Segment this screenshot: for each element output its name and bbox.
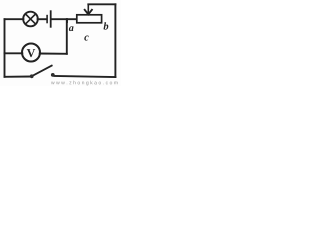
watermark text <box>51 82 55 85</box>
label a <box>69 26 74 31</box>
label c <box>84 36 88 41</box>
switch S blade <box>33 66 52 76</box>
switch S left pivot dot <box>30 74 34 78</box>
voltmeter V letter <box>27 49 35 57</box>
rheostat slider arrow <box>85 4 92 14</box>
battery cell <box>47 11 51 27</box>
wire left vertical <box>4 19 6 77</box>
rheostat R body <box>77 15 102 23</box>
lamp L1 <box>23 12 38 27</box>
wire bottom-left horizontal <box>5 76 31 78</box>
junction tick node <box>66 19 68 22</box>
switch S right contact dot <box>51 73 55 77</box>
wire voltmeter branch horizontal <box>5 52 23 54</box>
wire voltmeter riser vertical <box>66 19 68 54</box>
voltmeter U1 circle <box>22 44 40 62</box>
wire battery to rheostat terminal a <box>52 18 77 20</box>
wire bottom-right horizontal <box>54 76 115 77</box>
wire right vertical <box>114 4 116 77</box>
wire lamp to battery <box>38 18 47 20</box>
wire voltmeter to riser <box>40 53 67 55</box>
label b <box>104 22 109 29</box>
wire slider to top-right <box>88 3 115 5</box>
wire top-left horizontal <box>5 18 24 20</box>
